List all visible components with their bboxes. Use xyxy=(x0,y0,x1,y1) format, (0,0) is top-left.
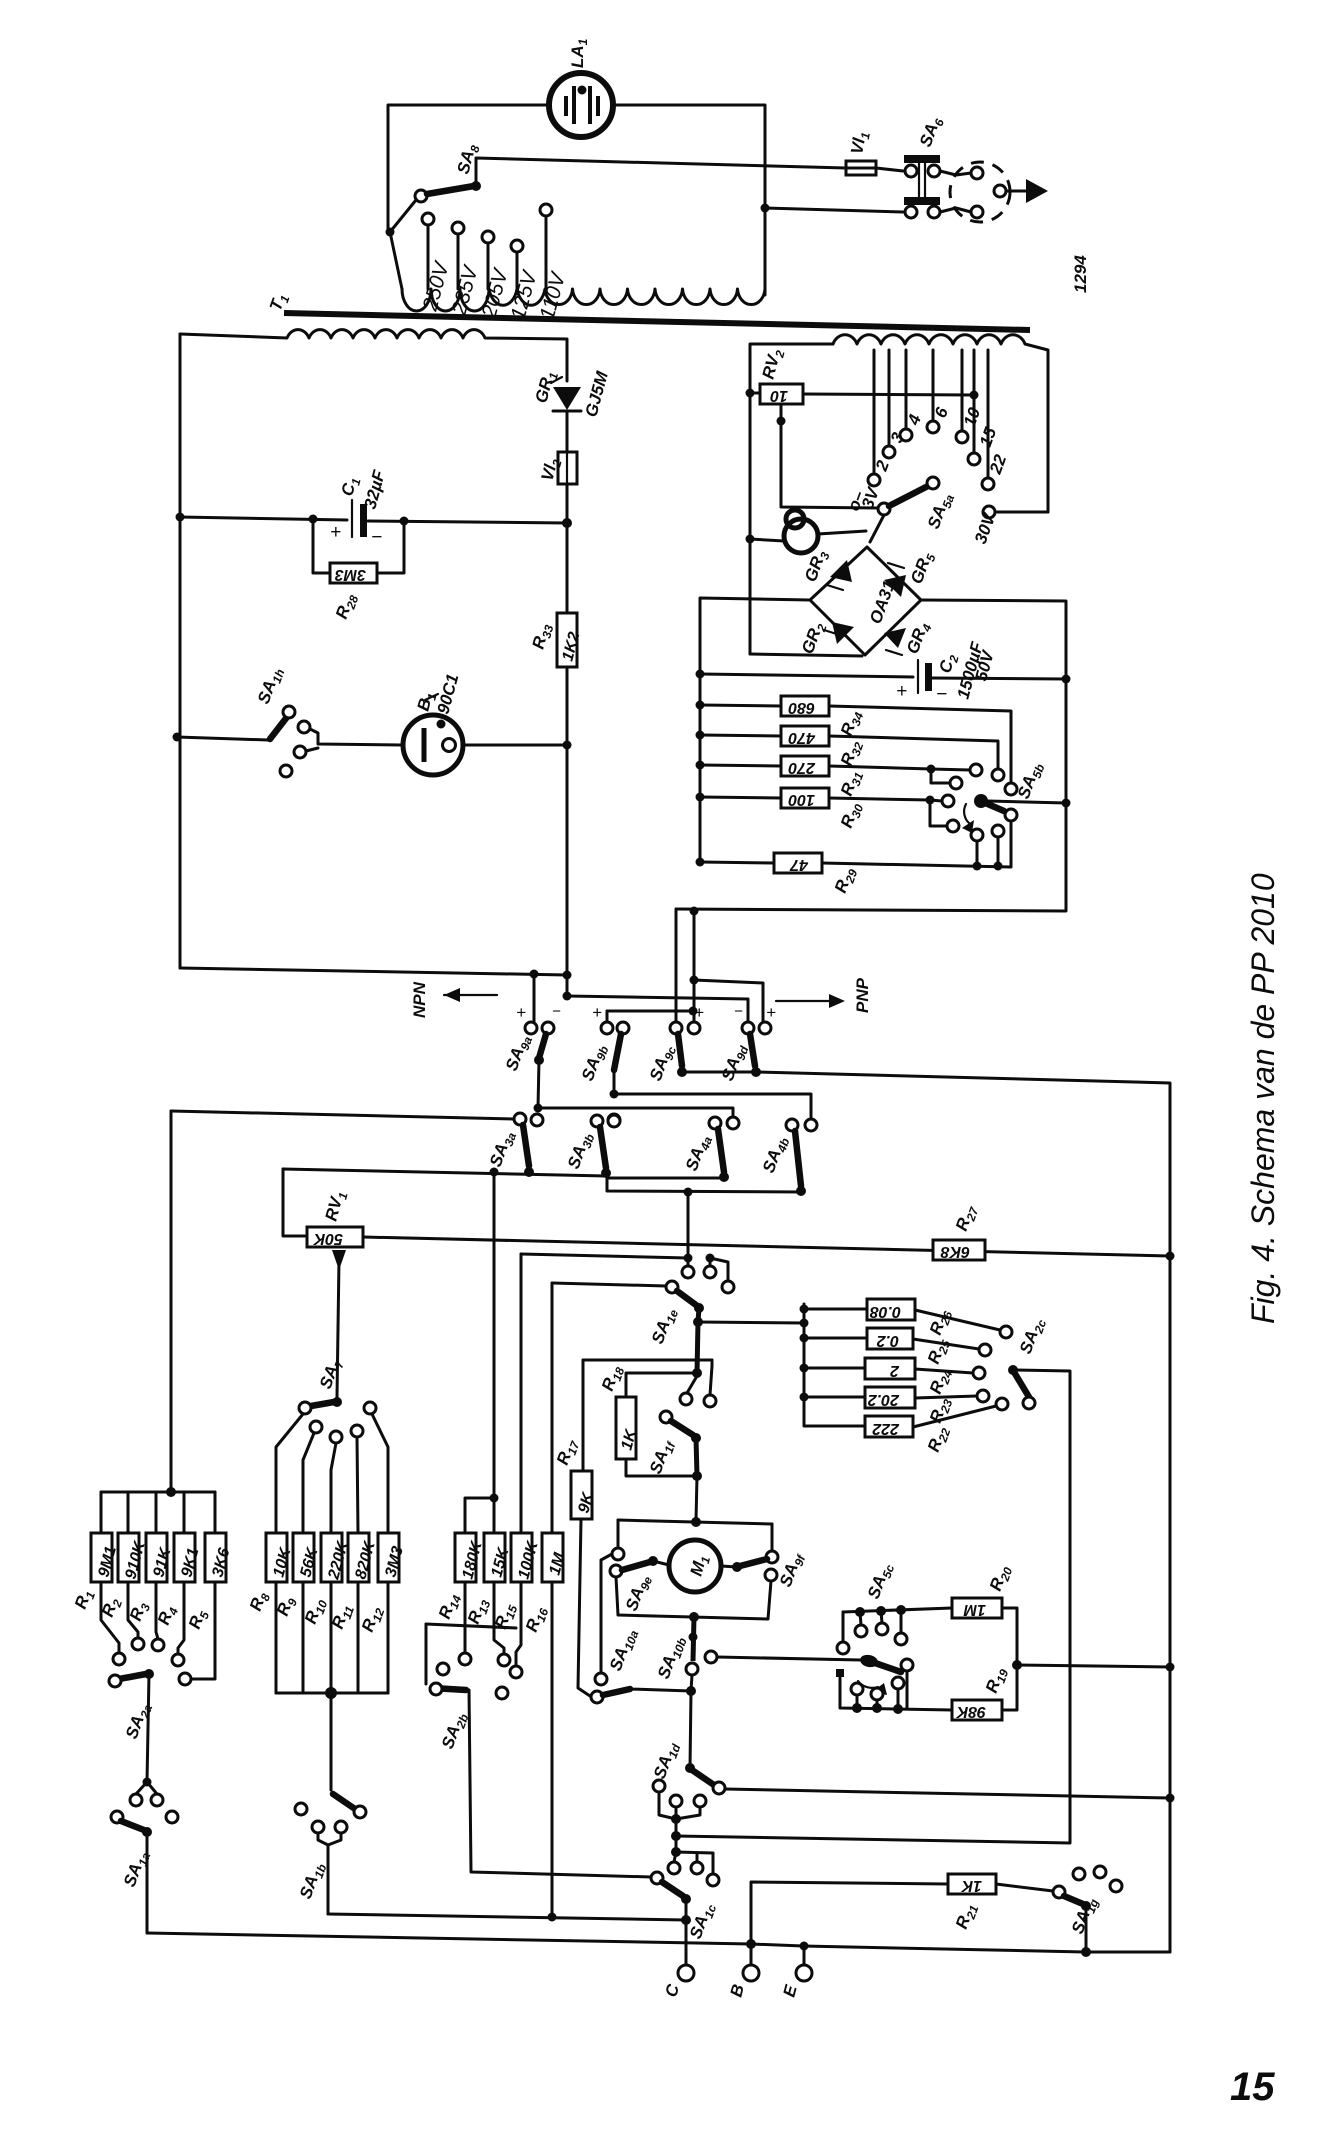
switch SA7 xyxy=(299,1355,376,1443)
resistor R1 9M1 xyxy=(71,1533,125,1665)
wire SA9c right feed xyxy=(694,980,763,1022)
svg-text:222: 222 xyxy=(872,1420,900,1437)
switch SA10b xyxy=(654,1617,861,1691)
wire SA1e feed drop xyxy=(687,1192,690,1258)
switch SA5b xyxy=(962,759,1066,870)
wire SA1e contact feeds xyxy=(521,1254,688,1258)
wire R1 bank feed xyxy=(166,1487,176,1497)
wire PNP drop left xyxy=(675,909,678,1028)
tap 22 xyxy=(982,350,1010,490)
wire SA9a to SA4a link xyxy=(538,1108,733,1117)
transformer T1 core xyxy=(284,313,1030,330)
svg-text:+: + xyxy=(330,522,341,543)
node NPN rail SA9a xyxy=(530,970,539,979)
wire B to R21 xyxy=(751,1882,948,1944)
terminal E xyxy=(780,1942,812,2000)
resistor R3 91K xyxy=(126,1533,175,1651)
resistor R28 3M3 xyxy=(313,519,404,622)
svg-text:50K: 50K xyxy=(312,1230,343,1247)
tap 6 xyxy=(927,350,952,433)
wire lower row to SA6 xyxy=(765,208,903,212)
wire bus to SA1b xyxy=(330,1693,333,1790)
wire feeds from SA1e rows xyxy=(493,1172,496,1498)
resistor R8 10K xyxy=(246,1533,295,1693)
svg-text:−: − xyxy=(660,1003,669,1020)
diode GR4 xyxy=(884,619,935,657)
transformer T1 secondary right xyxy=(750,344,833,654)
wire bridge right DC down right rail xyxy=(676,600,1066,911)
tap 4 xyxy=(900,350,925,441)
switch SA9e xyxy=(610,1548,669,1614)
capacitor C2 1500uF 50V xyxy=(896,640,998,705)
node C1 right xyxy=(400,517,409,526)
diode GR2 xyxy=(798,619,854,657)
switch SA9f xyxy=(721,1550,809,1591)
fuse Vl1 xyxy=(846,130,876,175)
transformer T1 secondary left xyxy=(180,330,567,381)
switch SA6 xyxy=(904,114,971,218)
resistor R20 1M xyxy=(952,1562,1017,1665)
node B1 right xyxy=(563,741,572,750)
switch SA5c xyxy=(836,1560,952,1714)
svg-text:470: 470 xyxy=(788,729,816,746)
wire SA9b link xyxy=(607,1010,693,1013)
wire R17 feed row xyxy=(583,1359,712,1362)
diode GR5 xyxy=(884,549,939,597)
resistor R21 1K xyxy=(948,1874,1053,1932)
tap 3 xyxy=(883,350,908,458)
diode GR3 xyxy=(801,547,852,590)
switch SA1f xyxy=(646,1360,716,1481)
resistor R2 910K xyxy=(98,1533,149,1650)
wire bridge bottom AC xyxy=(750,654,862,656)
switch SA1b xyxy=(295,1794,366,1914)
wire C2 bus xyxy=(700,674,913,677)
node NPN rail at R33 xyxy=(563,971,572,980)
tap 15 xyxy=(968,350,1000,465)
switch SA1e xyxy=(648,1258,734,1347)
tap 235V xyxy=(447,222,483,318)
diode GR1 GJ5M xyxy=(532,369,613,452)
switch SA9b xyxy=(578,1003,637,1126)
switch SA1g xyxy=(1053,1866,1122,1957)
switch SA9d xyxy=(718,1003,776,1084)
wire SA1a long bottom line xyxy=(147,1933,1170,1952)
resistor R29 47 xyxy=(696,809,1018,896)
resistor R19 98K xyxy=(952,1664,1017,1720)
switch SA4b xyxy=(759,1119,817,1196)
svg-text:PNP: PNP xyxy=(853,977,872,1013)
svg-text:Fig. 4. Schema van de PP 2010: Fig. 4. Schema van de PP 2010 xyxy=(1245,873,1281,1324)
svg-text:−: − xyxy=(628,1003,637,1020)
switch SA1a xyxy=(111,1778,178,1934)
wire SA1e common to shunt bus xyxy=(698,1322,804,1323)
wire SA1f common to meter xyxy=(696,1476,697,1521)
node C1 line at left vertical xyxy=(176,513,185,522)
svg-text:+: + xyxy=(694,1003,704,1022)
transformer T1 primary winding xyxy=(402,289,765,311)
svg-text:98K: 98K xyxy=(955,1703,986,1720)
tap 205V xyxy=(477,231,513,321)
resistor R15 100K xyxy=(491,1533,542,1678)
svg-text:+: + xyxy=(592,1003,602,1022)
svg-text:100: 100 xyxy=(788,791,815,808)
current loop / toroid xyxy=(746,510,867,553)
switch SA1c xyxy=(651,1872,719,1967)
switch SA3b xyxy=(564,1115,620,1178)
resistor R18 1K xyxy=(598,1362,697,1476)
switch SA8 xyxy=(390,142,846,232)
node tap bracket xyxy=(386,228,395,237)
wire left rail to SA3a xyxy=(171,1111,514,1119)
svg-text:3M3: 3M3 xyxy=(335,566,366,583)
wire SA4a bottom segment xyxy=(607,1177,724,1180)
svg-text:6K8: 6K8 xyxy=(941,1243,970,1260)
switch SA3a xyxy=(486,1113,534,1177)
wire junction to right rail xyxy=(1017,1665,1170,1667)
fuse Vl2 xyxy=(538,452,577,520)
tap 110V xyxy=(536,204,571,322)
resistor R22 222 xyxy=(804,1398,1008,1455)
wire left vertical main xyxy=(179,334,182,968)
svg-text:2: 2 xyxy=(890,1362,900,1379)
wire SA9b to SA4b link xyxy=(614,1094,811,1119)
resistor R4 9K1 xyxy=(154,1533,203,1666)
node Vl2 bottom xyxy=(562,518,572,528)
lamp B1 90C1 xyxy=(403,672,567,775)
wire lamp right to right vertical xyxy=(614,105,765,295)
wire C1 row xyxy=(180,517,347,520)
svg-text:1K: 1K xyxy=(960,1877,982,1894)
svg-text:20.2: 20.2 xyxy=(868,1391,900,1408)
resistor R27 6K8 xyxy=(933,1202,985,1260)
svg-text:680: 680 xyxy=(788,699,815,716)
wire bridge left DC to left bus xyxy=(700,598,810,862)
tap 2 3V xyxy=(844,350,893,513)
switch SA1h xyxy=(173,664,403,777)
resistor R34 680 xyxy=(696,696,1018,795)
switch SA2a xyxy=(109,1669,155,1782)
resistor R31 270 xyxy=(696,756,983,799)
svg-text:−: − xyxy=(936,684,947,705)
switch SA9a xyxy=(502,1003,561,1126)
resistor R12 3M3 xyxy=(358,1533,407,1693)
svg-text:+: + xyxy=(766,1003,776,1022)
resistor R24 2 xyxy=(800,1358,986,1397)
potentiometer RV2 10 xyxy=(746,347,979,508)
wire top loop left xyxy=(388,105,548,232)
svg-text:0.08: 0.08 xyxy=(870,1303,901,1320)
wire SA1b row line xyxy=(328,1914,686,1920)
tap 250V xyxy=(418,213,454,314)
resistor R17 9K xyxy=(553,1436,598,1696)
svg-text:1294: 1294 xyxy=(1071,255,1090,293)
svg-text:47: 47 xyxy=(789,856,809,873)
resistor R9 56K xyxy=(273,1533,322,1693)
meter M1 xyxy=(669,1540,721,1592)
resistor R32 470 xyxy=(696,726,1005,781)
wire SA9 common to right rail xyxy=(682,1072,1170,1952)
capacitor C1 32uF xyxy=(330,468,389,548)
switch SA2b xyxy=(426,1624,651,1877)
wire SA4b bottom segment xyxy=(607,1178,801,1192)
svg-text:0.2: 0.2 xyxy=(877,1332,899,1349)
resistor R26 0.08 xyxy=(800,1299,1013,1338)
resistor R25 0.2 xyxy=(800,1328,992,1367)
svg-text:NPN: NPN xyxy=(410,981,429,1018)
resistor R33 1K2 xyxy=(529,523,584,995)
wire SA10 common down to SA1d xyxy=(690,1691,691,1768)
wire NPN rail xyxy=(180,968,567,975)
switch SA4a xyxy=(682,1117,739,1182)
resistor R14 180K xyxy=(435,1533,486,1665)
switch SA9c xyxy=(646,1003,704,1084)
resistor R11 820K xyxy=(328,1533,379,1693)
svg-text:+: + xyxy=(896,681,907,702)
node SA5b common on rail xyxy=(1062,799,1071,808)
resistor R16 1M xyxy=(522,1533,569,1917)
wire SA7 contacts to R8..R12 xyxy=(276,1414,303,1533)
resistor R13 15K xyxy=(464,1533,513,1666)
resistor R30 100 xyxy=(696,788,960,832)
wire meter bottom bracket xyxy=(616,1577,771,1619)
label NPN with arrow xyxy=(410,981,497,1018)
svg-text:+: + xyxy=(516,1003,526,1022)
node junction right vertical xyxy=(761,204,770,213)
terminal B xyxy=(727,1939,759,1999)
svg-text:10: 10 xyxy=(770,387,788,404)
svg-text:−: − xyxy=(552,1003,561,1020)
resistor R23 20.2 xyxy=(800,1387,990,1426)
label PNP with arrow xyxy=(776,977,872,1013)
switch SA2c xyxy=(676,1315,1070,1843)
wire fuse to SA6 xyxy=(876,168,903,171)
lamp LA1 xyxy=(549,38,613,137)
resistor R5 3K6 xyxy=(179,1533,233,1685)
resistor R10 220K xyxy=(301,1533,352,1693)
potentiometer RV1 50K xyxy=(283,1169,1175,1397)
tap 10 xyxy=(956,350,984,443)
tap 30V xyxy=(971,506,1048,546)
wire SA9a drop xyxy=(533,974,536,1022)
switch SA1d xyxy=(650,1739,1175,1886)
switch SA5a xyxy=(870,477,957,542)
node C1 left xyxy=(309,515,318,524)
tap 125V xyxy=(507,240,542,322)
switch SA10a xyxy=(591,1554,696,1703)
terminal C xyxy=(662,1965,694,1999)
svg-text:15: 15 xyxy=(1230,2065,1275,2109)
wire meter top bracket xyxy=(618,1520,772,1524)
svg-text:1M: 1M xyxy=(963,1601,986,1618)
svg-text:−: − xyxy=(734,1003,743,1020)
wire PNP drop right xyxy=(693,911,696,1028)
svg-text:−: − xyxy=(371,527,382,548)
wire taps bracket xyxy=(390,232,402,289)
mains plug xyxy=(950,162,1048,222)
wire R33 to SA9d feed xyxy=(567,996,748,1022)
wire R8..R12 bus xyxy=(276,1692,388,1695)
svg-text:270: 270 xyxy=(788,759,816,776)
bridge rectifier OA31 xyxy=(810,547,921,655)
node R19 R20 junction xyxy=(1012,1660,1022,1670)
wire RV1 top rail xyxy=(283,1169,606,1176)
wire SA1e common down xyxy=(697,1322,698,1373)
